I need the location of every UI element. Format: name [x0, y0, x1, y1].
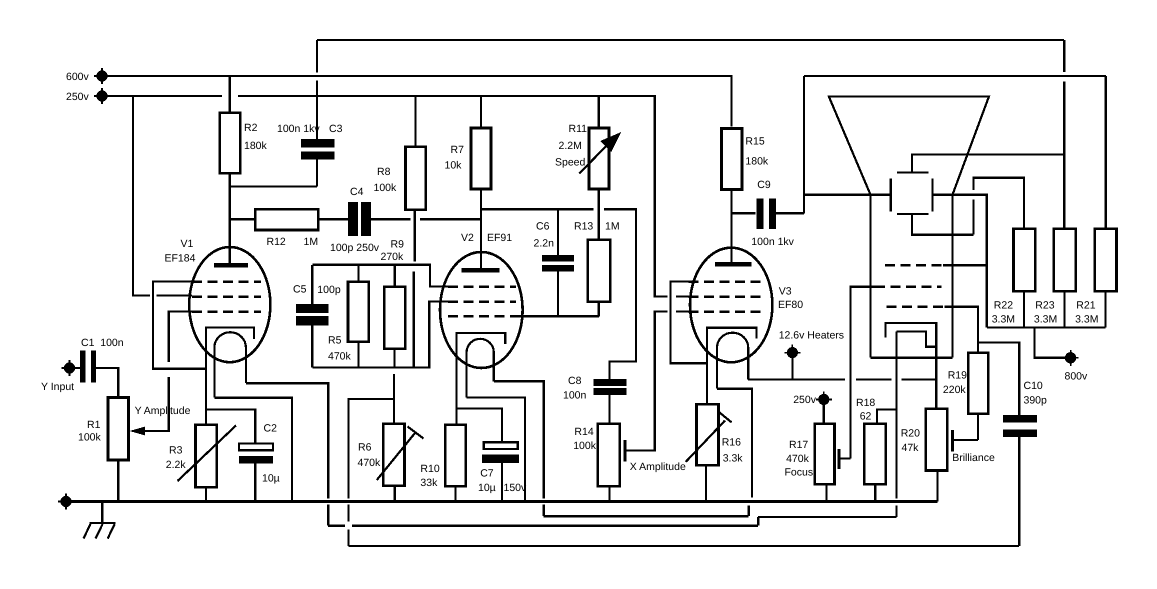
svg-text:R15: R15	[745, 136, 764, 148]
svg-text:3.3M: 3.3M	[1034, 314, 1057, 326]
CRT heater hook	[896, 332, 937, 347]
svg-text:10µ: 10µ	[262, 473, 280, 485]
wire 250v rail right segment with corner down to V3 screen grid	[238, 96, 667, 297]
svg-text:2.2k: 2.2k	[166, 459, 187, 471]
svg-text:X Amplitude: X Amplitude	[630, 461, 686, 473]
svg-text:100n: 100n	[563, 390, 587, 402]
wire top rail right corner down to R23 (break at 600v segment)	[1063, 40, 1065, 229]
svg-text:390p: 390p	[1024, 395, 1048, 407]
resistor R7	[445, 96, 492, 270]
svg-text:V2: V2	[461, 232, 474, 244]
svg-text:Y Input: Y Input	[41, 381, 74, 393]
svg-text:3.3M: 3.3M	[1075, 314, 1098, 326]
wire top rail	[317, 39, 1064, 41]
network top rail (C5/R5/R9)	[312, 265, 448, 287]
svg-text:100k: 100k	[78, 432, 102, 444]
wire 250v rail left segment	[102, 95, 222, 97]
CRT deflection plates (gun square)	[891, 172, 933, 214]
svg-text:R20: R20	[901, 428, 920, 440]
svg-text:47k: 47k	[902, 442, 920, 454]
resistor R20 (brilliance pot)	[901, 409, 978, 502]
svg-text:470k: 470k	[786, 453, 810, 465]
wire line A right corner to V3 heater left leg	[748, 506, 750, 517]
capacitor C7 (electrolytic)	[457, 408, 528, 501]
svg-text:1M: 1M	[605, 221, 620, 233]
wire V1 anode junction (R2 bottom to C3 bottom)	[230, 185, 317, 187]
svg-text:C10: C10	[1024, 380, 1043, 392]
svg-text:180k: 180k	[745, 156, 769, 168]
wire CRT accelerator row to R19	[945, 307, 978, 353]
wire line A (V2 anode to C6/R13/C8 node)	[481, 209, 636, 378]
svg-text:3.3k: 3.3k	[723, 453, 744, 465]
svg-text:R9: R9	[391, 239, 405, 251]
capacitor C8	[563, 375, 627, 424]
resistor R10	[420, 425, 465, 502]
svg-text:12.6v Heaters: 12.6v Heaters	[779, 330, 844, 342]
svg-text:C4: C4	[350, 186, 364, 198]
ground bus	[66, 500, 937, 503]
wire V2 heater left leg to ground	[467, 398, 525, 502]
svg-text:R6: R6	[358, 442, 372, 454]
wire 250v branch down at x=133 to V1 screen grid	[133, 96, 150, 296]
resistor R6 (variable)	[358, 374, 424, 502]
tube V1 heater	[214, 332, 246, 397]
wire 600v right segment	[804, 75, 1106, 77]
svg-text:62: 62	[860, 411, 872, 423]
svg-text:2.2M: 2.2M	[559, 140, 582, 152]
wire V3 heater left leg down	[717, 389, 752, 498]
resistor R5	[328, 265, 369, 368]
svg-text:C9: C9	[757, 179, 771, 191]
svg-text:100n 1kv: 100n 1kv	[277, 123, 320, 135]
svg-text:C6: C6	[536, 221, 550, 233]
wire V1 heater left leg to ground	[214, 398, 292, 502]
svg-text:V3: V3	[779, 286, 792, 298]
svg-text:800v: 800v	[1065, 371, 1089, 383]
wire CRT left X plate lead	[804, 194, 891, 196]
svg-text:470k: 470k	[328, 351, 352, 363]
capacitor C3	[277, 40, 343, 186]
resistor R18	[856, 397, 896, 502]
svg-text:600v: 600v	[66, 71, 90, 83]
CRT cathode bracket	[886, 323, 937, 409]
svg-text:10µ: 10µ	[478, 482, 496, 494]
svg-text:100k: 100k	[573, 440, 597, 452]
capacitor C5	[293, 265, 341, 368]
wire CRT bottom Y plate to R22	[912, 178, 1024, 235]
wire V1 heater right leg to line B	[246, 383, 328, 526]
svg-text:150v: 150v	[504, 482, 528, 494]
svg-text:180k: 180k	[244, 140, 268, 152]
svg-text:C5: C5	[293, 284, 307, 296]
CRT funnel	[829, 97, 989, 358]
svg-text:R16: R16	[722, 437, 741, 449]
svg-text:Speed: Speed	[555, 157, 586, 169]
wire line B (V1 heater chain)	[328, 517, 758, 526]
wire line C (to C10)	[348, 545, 1019, 547]
resistor R2	[220, 76, 268, 265]
wire V3 heater right leg / 12.6v heater line	[748, 378, 936, 380]
svg-text:250v: 250v	[66, 91, 90, 103]
resistor R1 (Y amplitude pot)	[78, 398, 129, 502]
svg-text:1M: 1M	[304, 236, 319, 248]
wire V3 suppressor grid to cathode	[671, 282, 708, 364]
network bottom rail	[312, 302, 448, 368]
ground symbol	[84, 502, 116, 539]
svg-text:R1: R1	[87, 419, 101, 431]
svg-text:R19: R19	[948, 370, 967, 382]
svg-text:100k: 100k	[374, 182, 398, 194]
svg-text:R7: R7	[451, 144, 465, 156]
wire V1 control grid to Y amplitude wiper (with break at crossing)	[144, 312, 192, 431]
CRT grid dashes	[875, 265, 944, 307]
wire x=804 vertical (to CRT X plate and C9)	[803, 76, 805, 213]
svg-text:R3: R3	[169, 445, 183, 457]
resistor R3 (variable)	[166, 425, 236, 502]
svg-text:470k: 470k	[358, 457, 382, 469]
wire CRT heater left leg down to heater line B extension	[895, 332, 897, 518]
node 800v	[1034, 328, 1088, 383]
tube V1 envelope	[189, 247, 270, 362]
svg-text:R13: R13	[574, 221, 593, 233]
tube V3 heater	[717, 333, 748, 389]
wire CRT top Y plate to top rail	[912, 155, 1064, 173]
node 600v terminal dot	[96, 70, 107, 81]
wire V1 screen grid entry segment	[157, 294, 193, 296]
tube V2 cathode bracket	[457, 333, 506, 425]
wire CRT grid1 row to divider	[943, 264, 987, 266]
svg-text:EF184: EF184	[165, 253, 196, 265]
resistor R16 (variable)	[686, 404, 743, 501]
resistor R13	[574, 189, 620, 316]
svg-text:2.2n: 2.2n	[534, 238, 555, 250]
arrow Y amplitude wiper	[130, 427, 146, 436]
wire 600v rail	[102, 76, 732, 127]
node 250v right label and dot	[793, 394, 829, 424]
resistor R22	[992, 229, 1036, 328]
svg-text:10k: 10k	[445, 160, 463, 172]
wire V2 heater right leg to line A	[494, 381, 544, 516]
svg-text:V1: V1	[181, 238, 194, 250]
svg-text:C8: C8	[568, 375, 582, 387]
wire heater line B extension segment	[758, 516, 896, 518]
svg-text:3.3M: 3.3M	[992, 314, 1015, 326]
resistor R14 (X amplitude pot)	[573, 424, 620, 502]
tube V1 grid dashes	[192, 282, 261, 312]
wire line A	[544, 515, 749, 517]
tube V3 anode plate	[715, 262, 752, 267]
resistor R8	[374, 96, 426, 368]
svg-text:220k: 220k	[943, 384, 967, 396]
tube V1 anode plate	[214, 263, 248, 268]
resistor R9	[381, 239, 406, 368]
tube V2 anode plate	[462, 268, 500, 273]
svg-text:Y Amplitude: Y Amplitude	[135, 405, 191, 417]
tube V3 cathode bracket	[707, 328, 757, 405]
svg-text:Focus: Focus	[785, 467, 814, 479]
wire CRT right X plate to divider bottom	[932, 195, 986, 328]
svg-text:EF91: EF91	[487, 232, 512, 244]
svg-text:33k: 33k	[420, 477, 438, 489]
tube V3 envelope	[690, 248, 772, 363]
svg-text:C2: C2	[264, 423, 278, 435]
svg-text:R8: R8	[377, 166, 391, 178]
svg-text:250v: 250v	[793, 394, 817, 406]
terminal dot spikes	[58, 68, 1079, 510]
svg-text:R21: R21	[1076, 300, 1095, 312]
svg-text:100p: 100p	[317, 284, 341, 296]
svg-text:270k: 270k	[381, 251, 405, 263]
resistor R19	[943, 353, 988, 440]
svg-text:R5: R5	[328, 335, 342, 347]
wire CRT focus row to R17 wiper	[850, 287, 875, 459]
svg-text:C3: C3	[329, 123, 343, 135]
wire timebase output elbow to line C	[348, 399, 394, 546]
svg-text:R23: R23	[1035, 300, 1054, 312]
resistor R17 (focus pot)	[785, 424, 851, 502]
resistor R11 (variable, speed)	[555, 96, 621, 189]
svg-text:C1 100n: C1 100n	[81, 337, 124, 349]
wire X amplitude wiper to V3 control grid	[625, 312, 689, 462]
resistor R21	[1075, 76, 1116, 328]
svg-text:R22: R22	[994, 300, 1013, 312]
svg-text:R11: R11	[569, 123, 588, 135]
capacitor C9	[732, 179, 804, 248]
svg-text:R10: R10	[420, 463, 439, 475]
svg-text:R12: R12	[267, 236, 286, 248]
capacitor C10	[978, 342, 1047, 546]
svg-text:Brilliance: Brilliance	[952, 452, 995, 464]
node 12.6v heaters	[779, 330, 844, 380]
svg-text:C7: C7	[480, 468, 494, 480]
tube V2 envelope	[440, 252, 523, 368]
svg-text:R18: R18	[856, 397, 875, 409]
tube V2 heater	[467, 339, 494, 398]
capacitor C2 (electrolytic)	[206, 410, 280, 502]
capacitor C4	[330, 186, 481, 254]
node ground bus terminal dot	[60, 496, 71, 507]
svg-text:100p 250v: 100p 250v	[330, 242, 380, 254]
wire V2 control grid to C6/R13 bottoms	[516, 315, 599, 317]
wire divider bottom rail	[987, 326, 1106, 328]
resistor R12	[230, 209, 348, 248]
tube V2 grid dashes	[448, 287, 516, 317]
resistor R15	[722, 129, 769, 264]
tube V1 cathode bracket	[206, 328, 254, 425]
wire V1 suppressor grid to cathode	[153, 282, 206, 369]
svg-text:EF80: EF80	[778, 299, 803, 311]
svg-text:100n 1kv: 100n 1kv	[751, 236, 794, 248]
capacitor C6	[534, 209, 575, 316]
svg-text:R17: R17	[789, 439, 808, 451]
svg-text:R14: R14	[574, 426, 593, 438]
node 250v terminal dot	[96, 90, 107, 101]
capacitor C1	[64, 337, 124, 398]
svg-text:R2: R2	[244, 122, 258, 134]
tube V3 grid dashes	[689, 282, 766, 312]
resistor R23	[1034, 229, 1076, 328]
